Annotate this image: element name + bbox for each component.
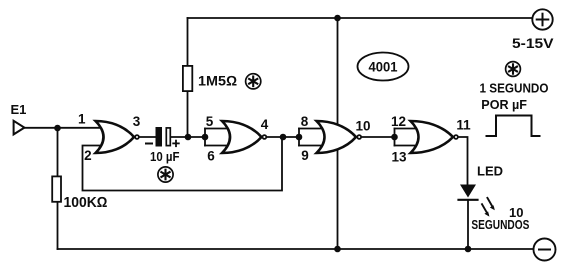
svg-text:1: 1	[78, 112, 86, 127]
svg-text:1M5Ω: 1M5Ω	[198, 73, 237, 89]
svg-text:10 µF: 10 µF	[150, 149, 180, 164]
resistor R1 1M5	[183, 18, 192, 137]
input triangle symbol	[14, 121, 25, 135]
wire middle vertical from top rail to bottom rail	[337, 18, 339, 249]
node bottom junction mid	[334, 246, 341, 253]
svg-text:POR µF: POR µF	[481, 97, 527, 112]
wire gate2 output to gate3 inputs	[267, 136, 299, 138]
capacitor C1 10uF polarized	[146, 127, 179, 147]
svg-text:6: 6	[207, 149, 215, 164]
wire gate4 output to LED	[459, 137, 468, 185]
symbol asterisk near R1	[246, 74, 261, 89]
svg-text:SEGUNDOS: SEGUNDOS	[471, 218, 529, 232]
svg-text:E1: E1	[11, 102, 27, 117]
power terminal +	[532, 9, 552, 29]
LED D1	[459, 185, 478, 250]
IC 4001	[358, 53, 409, 81]
gate U1b NOR pins 5,6,4	[222, 121, 266, 153]
LED light arrows	[482, 198, 495, 217]
node gate3 input tie	[296, 134, 303, 141]
gate U1a NOR pins 1,2,3	[96, 121, 139, 153]
svg-text:11: 11	[456, 118, 471, 133]
svg-text:13: 13	[391, 150, 407, 165]
wire feedback from gate2 output to pin 2	[83, 137, 283, 191]
svg-text:LED: LED	[477, 164, 503, 179]
wire gate2 input tie	[205, 129, 228, 146]
node top junction	[334, 15, 341, 22]
wire gate1 output to capacitor	[140, 136, 156, 138]
svg-text:12: 12	[391, 114, 406, 129]
svg-text:5-15V: 5-15V	[512, 36, 554, 51]
node bottom junction LED	[465, 246, 472, 253]
node gate2 input tie	[202, 134, 209, 141]
svg-text:9: 9	[301, 148, 309, 163]
node gate4 input tie	[391, 134, 398, 141]
wire gate3 input tie	[299, 129, 322, 146]
svg-text:4001: 4001	[369, 59, 398, 75]
svg-text:5: 5	[206, 114, 214, 129]
symbol asterisk legend	[506, 62, 521, 77]
wire bottom rail	[58, 248, 533, 250]
node R1 junction	[185, 134, 192, 141]
svg-text:8: 8	[301, 114, 309, 129]
symbol asterisk near C1	[158, 167, 173, 182]
svg-text:10: 10	[355, 119, 370, 134]
wire E1 to pin 1	[25, 127, 101, 129]
wire top supply rail	[188, 17, 532, 19]
svg-text:4: 4	[261, 117, 269, 132]
svg-text:1 SEGUNDO: 1 SEGUNDO	[480, 81, 549, 96]
svg-text:3: 3	[133, 114, 141, 129]
wire gate3 output to gate4 inputs	[362, 136, 395, 138]
node feedback junction	[280, 134, 287, 141]
resistor R2 100K	[52, 128, 61, 249]
wire gate4 input tie	[395, 129, 417, 146]
gate U1d NOR pins 12,13,11	[411, 121, 458, 153]
power terminal -	[534, 239, 556, 261]
waveform pulse symbol	[487, 116, 540, 137]
wire capacitor to gate2 inputs	[171, 136, 205, 138]
node E1 junction	[54, 125, 61, 132]
gate U1c NOR pins 8,9,10	[317, 121, 362, 153]
svg-text:2: 2	[84, 148, 92, 163]
svg-text:100KΩ: 100KΩ	[64, 195, 108, 211]
